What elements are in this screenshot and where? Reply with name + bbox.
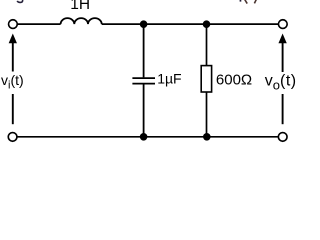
svg-text:1H: 1H bbox=[70, 0, 90, 13]
svg-text:vi(t): vi(t) bbox=[1, 72, 24, 91]
capacitor C stem bottom bbox=[143, 84, 145, 137]
wire: top rail left segment bbox=[18, 23, 61, 25]
wire: top rail right segment bbox=[102, 23, 279, 25]
svg-text:1µF: 1µF bbox=[157, 71, 181, 87]
inductor L 1H bbox=[61, 18, 102, 24]
partial glyph top-right (cropped text "(t)") bbox=[240, 0, 242, 2]
arrow input (vi) bbox=[9, 34, 17, 125]
svg-text:vo(t): vo(t) bbox=[265, 73, 297, 93]
svg-text:600Ω: 600Ω bbox=[216, 72, 252, 89]
wire: bottom rail bbox=[17, 136, 278, 138]
junction dot bottom-2 bbox=[203, 133, 211, 141]
capacitor C stem top bbox=[143, 24, 145, 77]
resistor R body (box) bbox=[201, 66, 211, 92]
arrow output (vo) bbox=[278, 34, 286, 125]
resistor R stem top bbox=[206, 24, 208, 66]
capacitor C bottom plate bbox=[132, 83, 155, 85]
junction dot bottom-1 bbox=[140, 133, 148, 141]
terminal: input top (open circle) bbox=[9, 20, 18, 29]
partial glyph top-left (cropped text) bbox=[17, 0, 22, 2]
terminal: output top (open circle) bbox=[278, 20, 287, 29]
resistor R stem bottom bbox=[206, 92, 208, 137]
junction dot top-2 bbox=[203, 20, 211, 28]
junction dot top-1 bbox=[140, 20, 148, 28]
terminal: output bottom (open circle) bbox=[278, 133, 287, 142]
capacitor C top plate bbox=[132, 77, 155, 79]
terminal: input bottom (open circle) bbox=[8, 133, 17, 142]
